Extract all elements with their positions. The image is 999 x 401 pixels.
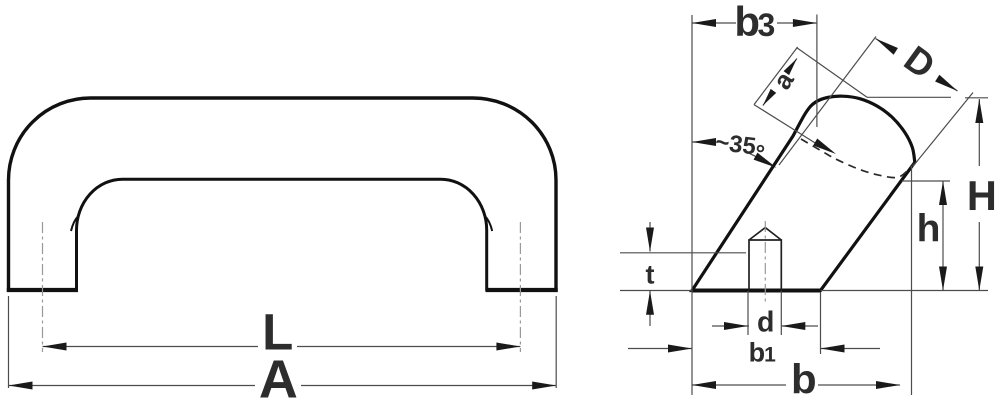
svg-text:b1: b1 (749, 338, 777, 368)
svg-text:D: D (897, 38, 943, 87)
svg-text:b: b (791, 356, 817, 401)
svg-text:~35°: ~35° (713, 129, 767, 168)
svg-text:b3: b3 (734, 0, 775, 45)
svg-text:h: h (917, 207, 941, 250)
svg-text:H: H (967, 172, 997, 219)
svg-text:d: d (757, 306, 774, 338)
svg-text:A: A (259, 349, 298, 401)
svg-text:t: t (646, 259, 655, 289)
